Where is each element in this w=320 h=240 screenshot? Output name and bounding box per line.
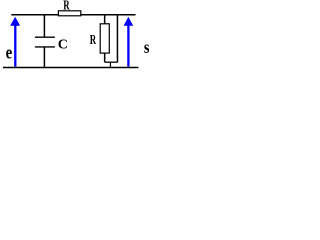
wire jog horizontal bbox=[105, 61, 118, 63]
wire shunt resistor bottom lead bbox=[104, 53, 106, 62]
resistor R1 (series, horizontal box) bbox=[58, 11, 80, 16]
svg-text:e: e bbox=[6, 42, 13, 63]
svg-text:R: R bbox=[90, 33, 97, 48]
wire shunt resistor top lead bbox=[104, 15, 106, 24]
wire right vertical bbox=[116, 14, 118, 62]
wire bottom rail bbox=[3, 67, 138, 69]
svg-text:R: R bbox=[63, 0, 70, 14]
wire stub to bottom rail bbox=[109, 62, 111, 67]
arrow s (output voltage, blue) bbox=[124, 17, 134, 67]
wire capacitor bottom lead bbox=[43, 47, 45, 67]
capacitor C1 plates bbox=[35, 37, 55, 47]
arrow e (input voltage, blue) bbox=[10, 17, 20, 67]
svg-text:C: C bbox=[58, 38, 68, 53]
wire capacitor top lead bbox=[43, 15, 45, 37]
svg-text:s: s bbox=[144, 37, 150, 57]
wire top rail bbox=[11, 14, 135, 16]
resistor R2 (shunt, vertical box) bbox=[100, 24, 109, 53]
